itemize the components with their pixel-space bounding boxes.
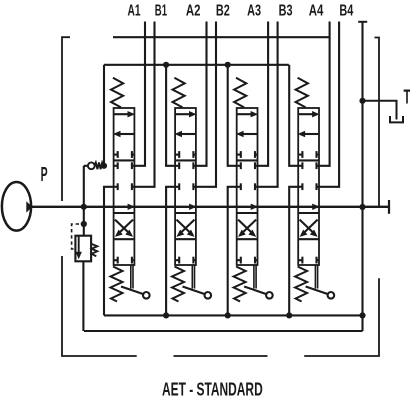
spring (bottom return spring) DV2 [172, 267, 184, 302]
node: P junction to relief/check riser [81, 204, 87, 210]
closed ports row B (neutral) DV2 [175, 186, 179, 188]
valve section DV4 [295, 78, 334, 302]
closed ports row (position 2) DV4 [298, 259, 302, 261]
svg-text:P: P [41, 163, 48, 186]
wire: exhaust branch from DV4 [289, 187, 298, 316]
valve section DV2 [172, 78, 211, 302]
closed ports row B (neutral) DV1 [114, 186, 118, 188]
node: feed gallery junction DV2 [163, 62, 169, 68]
wire: exhaust gallery (bottom of section loop) [104, 314, 363, 316]
wire: work port line to B4 [319, 22, 339, 187]
wire: T port branch [363, 101, 397, 120]
position 1 arrows (parallel) DV4 [298, 113, 314, 115]
wire: work port line to B1 [134, 22, 154, 187]
spring (top centering spring) DV1 [111, 78, 123, 108]
svg-text:T: T [404, 85, 410, 108]
position 1 arrows (parallel) DV2 [175, 113, 191, 115]
wire: feed branch to DV3 [228, 65, 237, 166]
wire: tank return gallery (top) [113, 36, 330, 38]
check valve CV (inlet check) [84, 162, 104, 169]
wire: riser from P line to check valve and relief valve [83, 166, 85, 236]
node: exhaust gallery junction DV4 [286, 312, 292, 318]
svg-text:B3: B3 [279, 3, 293, 20]
svg-text:B1: B1 [155, 3, 167, 20]
closed ports row (position 1) DV2 [175, 154, 179, 156]
wire: relief valve outlet to tank collector [82, 261, 84, 331]
wire: work port line to B3 [258, 22, 278, 187]
wire: exhaust branch from DV3 [228, 187, 237, 316]
wire: exhaust branch from DV1 [104, 187, 114, 316]
valve body envelope DV3 [237, 108, 258, 265]
wire: work port line to A1 [134, 22, 145, 166]
open-centre bypass arrow DV3 [251, 204, 259, 210]
position 2 crossed arrows DV3 [238, 220, 254, 235]
svg-text:A4: A4 [309, 3, 324, 20]
closed ports row (position 2) DV3 [237, 259, 241, 261]
position 1 arrows (parallel) DV3 [237, 113, 253, 115]
open-centre bypass arrow DV4 [312, 204, 320, 210]
svg-text:B4: B4 [339, 3, 353, 20]
node: tank riser / T port branch [359, 98, 365, 104]
node: tank riser / P gallery end [359, 204, 365, 210]
valve section DV3 [234, 78, 273, 302]
wire: work port line to A4 [319, 22, 330, 166]
wire: feed branch to DV1 [103, 65, 105, 166]
pump P (inlet) [2, 182, 32, 231]
valve body envelope DV4 [298, 108, 319, 265]
tank symbol at T port [390, 116, 403, 122]
closed ports row (position 2) DV1 [114, 259, 118, 261]
wire: tank line T riser [361, 22, 363, 316]
wire: exhaust branch from DV2 [166, 187, 175, 316]
svg-text:A1: A1 [128, 3, 141, 20]
node: feed gallery junction DV3 [225, 62, 231, 68]
wire: tank collector line [84, 315, 363, 331]
svg-text:AET - STANDARD: AET - STANDARD [162, 378, 263, 399]
manual lever actuator DV1 [130, 265, 132, 289]
open-centre bypass arrow DV2 [189, 204, 197, 210]
node: tank riser / exhaust gallery [359, 312, 365, 318]
closed ports row A (neutral) DV3 [237, 165, 241, 167]
position 2 crossed arrows DV1 [115, 220, 131, 235]
svg-text:A3: A3 [247, 3, 261, 20]
wire: feed branch to DV2 [166, 65, 175, 166]
svg-text:A2: A2 [186, 3, 201, 20]
closed ports row (position 1) DV4 [298, 154, 302, 156]
closed ports row (position 1) DV1 [114, 154, 118, 156]
position 2 crossed arrows DV4 [300, 220, 316, 235]
manual lever actuator DV3 [253, 265, 255, 289]
open-centre bypass arrow DV1 [128, 204, 136, 210]
spring (bottom return spring) DV1 [111, 267, 123, 302]
node: check valve to feed rail junction [101, 163, 107, 169]
spring (top centering spring) DV2 [173, 78, 185, 108]
position 2 crossed arrows DV2 [177, 220, 193, 235]
manual lever actuator DV4 [314, 265, 316, 289]
closed ports row A (neutral) DV1 [114, 165, 118, 167]
relief valve RV [72, 224, 98, 261]
node: exhaust gallery junction DV3 [225, 312, 231, 318]
closed ports row B (neutral) DV4 [298, 186, 302, 188]
plugged top end of tank riser [358, 21, 367, 23]
wire: parallel feed gallery (top of section loop) [104, 64, 289, 66]
wire: work port line to B2 [196, 22, 216, 187]
position 1 arrows (parallel) DV1 [114, 113, 130, 115]
wire: work port line to A2 [196, 22, 207, 166]
boundary: valve body envelope (chain line) [62, 37, 379, 356]
spring (bottom return spring) DV4 [295, 267, 307, 302]
node: exhaust gallery junction DV2 [163, 312, 169, 318]
manual lever actuator DV2 [191, 265, 193, 289]
svg-text:B2: B2 [216, 3, 230, 20]
closed ports row (position 1) DV3 [237, 154, 241, 156]
wire: feed branch to DV4 [289, 65, 298, 166]
node: relief pilot tapping [81, 221, 87, 227]
plugged end of P gallery (carry-over) [388, 200, 390, 214]
closed ports row B (neutral) DV3 [237, 186, 241, 188]
valve body envelope DV1 [114, 108, 135, 265]
wire: P supply line (open-centre bypass gallery) [30, 206, 390, 208]
spring (top centering spring) DV4 [296, 78, 308, 108]
valve section DV1 [111, 78, 150, 302]
valve body envelope DV2 [175, 108, 196, 265]
closed ports row A (neutral) DV4 [298, 165, 302, 167]
spring (bottom return spring) DV3 [234, 267, 246, 302]
wire: work port line to A3 [258, 22, 269, 166]
spring (top centering spring) DV3 [234, 78, 246, 108]
closed ports row (position 2) DV2 [175, 259, 179, 261]
closed ports row A (neutral) DV2 [175, 165, 179, 167]
